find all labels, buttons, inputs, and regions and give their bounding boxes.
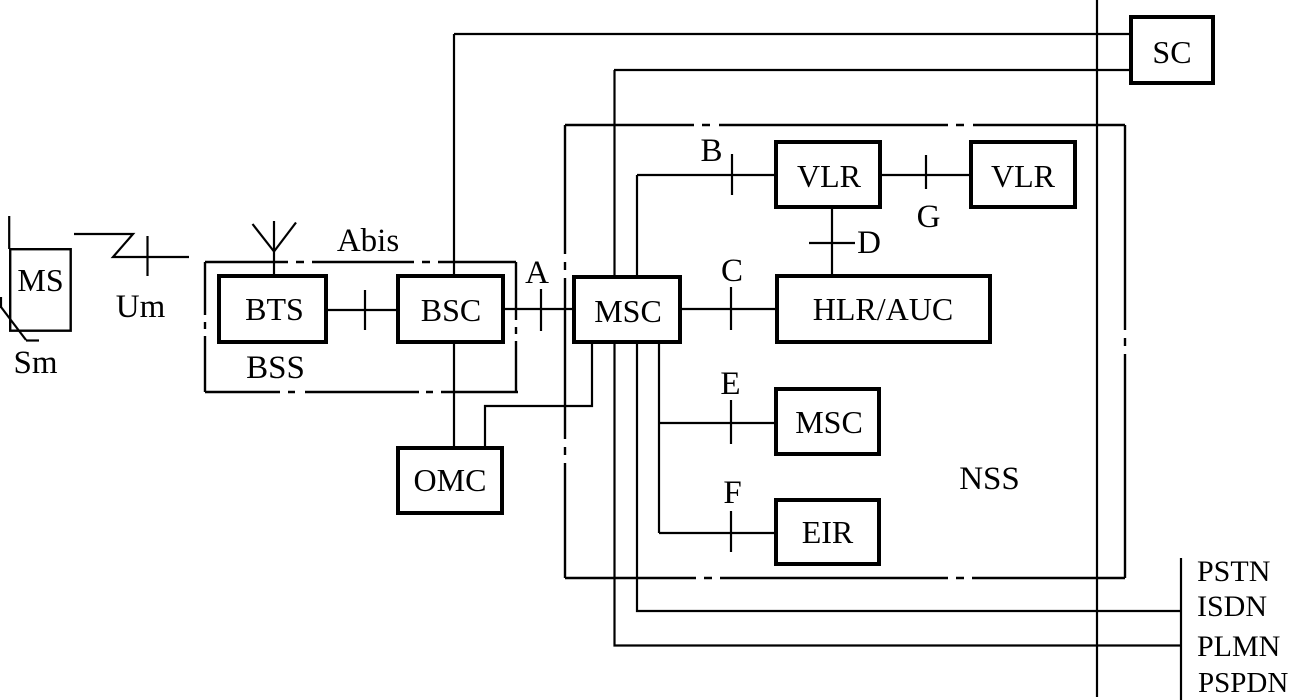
svg-text:SC: SC — [1152, 34, 1191, 70]
svg-text:ISDN: ISDN — [1197, 590, 1267, 623]
svg-text:PLMN: PLMN — [1197, 630, 1280, 663]
svg-text:B: B — [700, 133, 722, 169]
svg-text:VLR: VLR — [797, 158, 862, 194]
svg-text:Sm: Sm — [13, 345, 57, 381]
svg-text:A: A — [525, 255, 549, 291]
svg-text:MSC: MSC — [795, 404, 863, 440]
svg-text:E: E — [720, 366, 740, 402]
svg-text:Abis: Abis — [337, 223, 399, 259]
svg-text:MSC: MSC — [594, 293, 662, 329]
svg-text:BSS: BSS — [246, 350, 305, 386]
svg-text:C: C — [721, 253, 743, 289]
svg-text:G: G — [917, 199, 941, 235]
svg-text:PSPDN: PSPDN — [1198, 667, 1288, 699]
svg-text:D: D — [857, 225, 881, 261]
svg-text:BSC: BSC — [421, 292, 481, 328]
svg-text:F: F — [723, 475, 741, 511]
svg-text:MS: MS — [17, 262, 63, 298]
svg-text:PSTN: PSTN — [1197, 555, 1270, 588]
svg-text:OMC: OMC — [414, 462, 487, 498]
svg-text:Um: Um — [116, 289, 166, 325]
svg-text:NSS: NSS — [959, 461, 1020, 497]
svg-text:BTS: BTS — [245, 291, 304, 327]
svg-text:HLR/AUC: HLR/AUC — [813, 291, 953, 327]
svg-text:VLR: VLR — [991, 158, 1056, 194]
svg-text:EIR: EIR — [802, 514, 854, 550]
